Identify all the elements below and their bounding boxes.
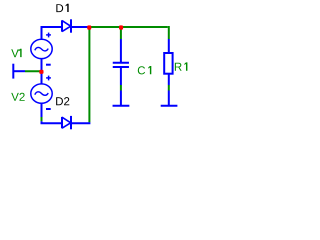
- label V2: [11, 93, 24, 101]
- polarity + of V1: [46, 33, 51, 38]
- wire: top rail green from node OUT to C1 node: [88, 26, 121, 28]
- node C: junction dot between V1 and V2: [39, 70, 43, 74]
- node B: junction dot at C1 branch: [119, 25, 123, 29]
- wire: V1 bottom lead: [41, 58, 43, 71]
- diode D2: [62, 116, 71, 129]
- wire: D1 cathode lead blue: [71, 26, 88, 28]
- wire: center-tap green wire: [25, 70, 42, 72]
- node A: junction dot at D1 cathode / output rail: [87, 25, 91, 29]
- wire: V2 bottom lead blue: [41, 103, 43, 117]
- diode D1: [62, 19, 71, 32]
- wire: green stub from node B down: [120, 27, 122, 39]
- wire: green segment below V2: [41, 117, 43, 121]
- wire: bottom-left corner blue to D2 anode: [42, 121, 63, 123]
- ground below C1: [113, 91, 130, 106]
- wire: V2 top lead: [41, 71, 43, 84]
- wire: R1 top corner green vertical: [168, 27, 169, 39]
- wire: top-left horizontal blue to D1 anode: [41, 26, 63, 28]
- source V2: [31, 84, 52, 103]
- source V1: [31, 39, 52, 58]
- wire: top rail green from C1 node to R1 corner: [121, 26, 168, 28]
- wire: R1 bottom lead blue: [168, 74, 170, 85]
- label D2: [56, 97, 69, 105]
- wire: green segment below R1: [168, 85, 170, 91]
- wire: green segment below C1: [120, 85, 122, 91]
- polarity - of V1: [46, 64, 51, 66]
- wire: D2 cathode lead blue to corner: [71, 122, 90, 124]
- polarity - of V2: [46, 108, 51, 110]
- wire: C1 top lead blue: [120, 39, 122, 63]
- label R1: [175, 62, 188, 70]
- polarity + of V2: [46, 76, 51, 81]
- label D1: [56, 4, 68, 12]
- ground left (center tap): [13, 64, 25, 79]
- wire: V1 top lead vertical: [41, 26, 43, 39]
- label V1: [11, 49, 21, 57]
- wire: long green vertical from node OUT down to D2 cathode corner: [88, 28, 90, 123]
- label C1: [138, 66, 152, 74]
- resistor R1: [164, 53, 172, 74]
- capacitor C1: [113, 63, 129, 67]
- ground below R1: [161, 91, 178, 106]
- wire: C1 bottom lead blue: [120, 68, 122, 86]
- wire: R1 top lead blue: [168, 39, 170, 53]
